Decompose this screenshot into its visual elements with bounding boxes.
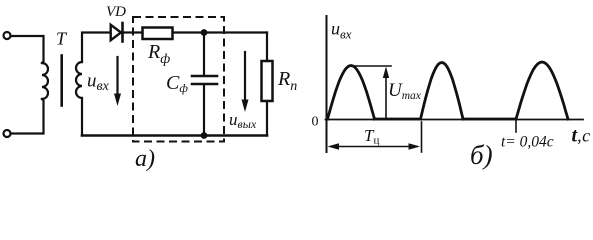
svg-text:0: 0 [312, 115, 319, 130]
wire Rп to bottom [266, 101, 268, 136]
resistor Rф [143, 28, 173, 40]
Umax reference line [352, 65, 391, 67]
node junction bottom [201, 132, 208, 139]
svg-text:uвых: uвых [229, 110, 257, 131]
svg-text:uвх: uвх [87, 71, 110, 95]
wire secondary bottom [81, 98, 83, 136]
x-axis [326, 119, 584, 121]
svg-text:Cф: Cф [166, 72, 188, 95]
svg-text:uвх: uвх [331, 19, 352, 42]
node junction top [201, 29, 208, 36]
svg-text:а): а) [135, 146, 155, 171]
svg-text:t,c: t,c [572, 125, 591, 147]
svg-text:Rп: Rп [277, 68, 297, 94]
arrow u_вых [244, 52, 246, 102]
wire primary bottom [11, 99, 44, 134]
transformer T primary winding [42, 63, 48, 99]
svg-text:Umax: Umax [388, 80, 422, 102]
wire Rп branch down [266, 33, 268, 62]
capacitor Cф [203, 33, 205, 75]
svg-text:t= 0,04c: t= 0,04c [501, 134, 554, 151]
y-axis [326, 16, 328, 152]
waveform pulses [328, 66, 375, 120]
dashed filter box [133, 17, 224, 142]
transformer T secondary winding [76, 62, 82, 98]
wire bottom [82, 134, 267, 137]
tick t=0.04 [515, 120, 517, 132]
svg-text:T: T [56, 29, 68, 49]
wire primary top [11, 36, 44, 63]
svg-text:VD: VD [106, 4, 126, 20]
Umax arrow [385, 72, 387, 119]
wire secondary top [82, 33, 110, 63]
T period right extension line [421, 122, 423, 152]
wire Rф to node [173, 31, 268, 33]
diode VD [111, 25, 121, 40]
terminal bottom-left [4, 130, 11, 137]
svg-text:б): б) [470, 140, 493, 170]
T period arrow [331, 146, 417, 148]
resistor Rп [262, 61, 273, 101]
arrow u_вх [116, 57, 118, 96]
wire diode to Rф [124, 31, 143, 33]
svg-text:Rф: Rф [147, 41, 170, 67]
svg-text:Tц: Tц [364, 126, 379, 147]
transformer core [60, 56, 63, 106]
terminal top-left [4, 32, 11, 39]
